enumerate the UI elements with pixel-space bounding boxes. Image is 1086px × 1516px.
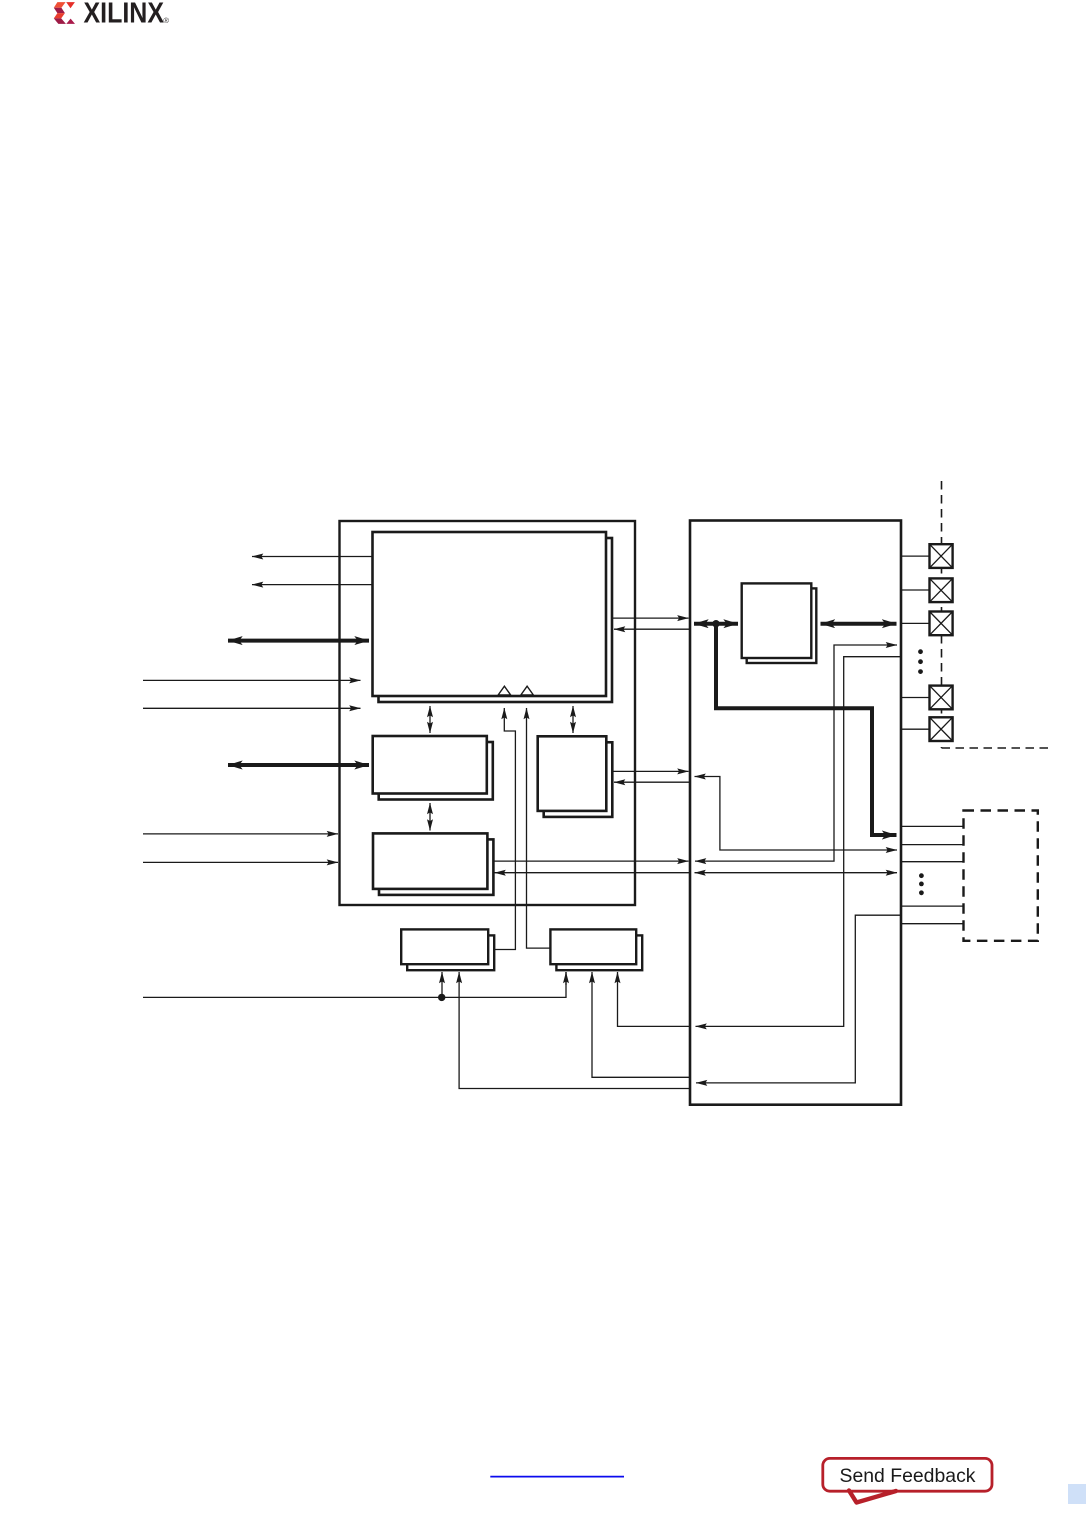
footer link underline (490, 1476, 624, 1478)
Send Feedback button (823, 1458, 992, 1502)
block U2 core (big, stacked) shadow (379, 538, 613, 702)
pad X4 (930, 686, 953, 710)
wire R4 U8 to U4 (614, 781, 690, 783)
wire I4 internal route from right edge to left edge (696, 657, 902, 1027)
pad stub P4 (901, 697, 930, 699)
ellipsis dots lower (919, 873, 924, 895)
ellipsis dots upper (918, 649, 923, 674)
pad stub P5 (901, 728, 930, 730)
svg-text:Send Feedback: Send Feedback (840, 1465, 976, 1487)
wire clock path from U6 to U2 (494, 708, 515, 950)
dashed net: serial lane horizontal (942, 747, 1049, 749)
arrow V2 bidir U2-U4 (572, 706, 574, 733)
stub S3 to dashed block (901, 861, 964, 863)
stub S2 to dashed block (901, 844, 964, 846)
block U8 right container (690, 521, 901, 1105)
block U4 mid-right (stacked) shadow (544, 742, 613, 817)
wire clock K1 up into U6 (441, 972, 443, 997)
dashed net: serial lane column (941, 481, 943, 748)
block U5 lower-left (stacked) shadow (379, 839, 493, 895)
pad X2 (930, 578, 953, 602)
wire R1 U2 to U8 (612, 617, 689, 619)
wire L8 in-left (143, 861, 338, 863)
wire R9 U8 to U6 via bottom (459, 972, 691, 1089)
junction dot on B1 (712, 620, 719, 627)
block U1 outer container (left) (340, 521, 636, 905)
pad X5 (930, 717, 953, 741)
block U3 mid-left (stacked) shadow (379, 742, 493, 800)
bus B2 thick bidir U9 to right edge (821, 622, 897, 626)
pad stub P1 (901, 555, 930, 557)
footer page marker square (1068, 1484, 1086, 1504)
wire L1 out-left top (252, 556, 373, 558)
block U7 bottom-right small (550, 929, 636, 964)
wire clock path from U7 to U2 (527, 708, 551, 948)
wire R7 U8 to U7 via bottom (592, 972, 691, 1077)
bus B1 thick bidir U8 edge to U9 (694, 622, 738, 626)
clock pin triangle 1 on U2 bottom (498, 686, 510, 695)
wire R6 U8 to U5 (495, 872, 691, 874)
stub S5 to dashed block (901, 923, 964, 925)
wire L2 out-left (252, 584, 373, 586)
block U7 bottom-right small (stacked) shadow (556, 935, 642, 970)
bus L3 bidirectional thick (228, 639, 369, 643)
block U4 mid-right (538, 736, 607, 811)
wire R3 U4 to U8 (612, 770, 688, 772)
arrow V1 bidir U2-U3 (429, 706, 431, 733)
wire I1 internal route left-down (695, 777, 898, 851)
wire I3 internal straight across (695, 872, 898, 874)
block U9 inner (stacked) shadow (747, 588, 817, 663)
wire L7 in-left (143, 833, 338, 835)
pad stub P3 (901, 622, 930, 624)
bus B3 thick route from B1 junction to right edge (716, 624, 897, 835)
bus L6 bidirectional thick (228, 763, 369, 767)
XILINX wordmark (84, 0, 170, 29)
wire L4 in-left (143, 679, 361, 681)
arrow V3 bidir U3-U5 (429, 803, 431, 831)
svg-text:®: ® (163, 16, 169, 25)
block U3 mid-left (373, 736, 487, 794)
wire I5 internal route lower (696, 915, 901, 1083)
block U2 core (big) (373, 532, 607, 696)
wire R5 U5 to U8 (493, 860, 689, 862)
wire clock K2 up into U7 (565, 972, 567, 985)
wire I2 internal route up-right (695, 645, 897, 861)
block U5 lower-left (373, 833, 487, 889)
wire L5 in-left (143, 707, 361, 709)
junction dot on L9 (438, 994, 445, 1001)
wire R2 U8 to U2 (614, 628, 690, 630)
block U6 bottom-left small (401, 929, 488, 964)
pad X1 (930, 544, 953, 568)
pad stub P2 (901, 589, 930, 591)
stub S4 to dashed block (901, 905, 964, 907)
svg-text:XILINX: XILINX (84, 0, 165, 29)
block U9 inner (742, 583, 812, 658)
dashed block: external PHY (964, 811, 1038, 941)
stub S1 to dashed block (901, 825, 964, 827)
block U6 bottom-left small (stacked) shadow (407, 935, 494, 970)
Xilinx logo mark (54, 2, 75, 24)
clock pin triangle 2 on U2 bottom (521, 686, 533, 695)
wire L9 bottom reference input (143, 972, 566, 997)
pad X3 (930, 612, 953, 636)
wire R8 U8 to U7 (618, 972, 692, 1026)
